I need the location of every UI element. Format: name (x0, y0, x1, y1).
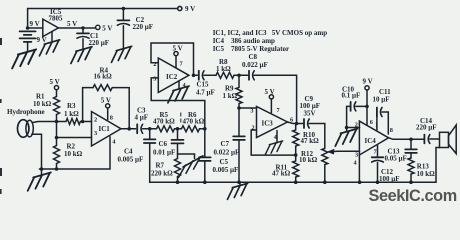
wire: R7 to bottom rail (177, 177, 179, 183)
svg-text:0.005 µF: 0.005 µF (213, 166, 239, 174)
wire: 5V to R1 top (56, 90, 58, 97)
svg-text:3: 3 (250, 107, 253, 114)
wire: IC2 pin 4 (178, 81, 180, 89)
resistor R7 220k vertical (175, 159, 181, 177)
svg-text:3: 3 (94, 130, 97, 137)
svg-text:C4: C4 (124, 148, 133, 156)
svg-text:SeekIC.com: SeekIC.com (369, 187, 457, 205)
svg-text:47 kΩ: 47 kΩ (272, 169, 291, 177)
svg-text:Hydrophone: Hydrophone (7, 108, 45, 116)
junction IC4 pin2 ground node (345, 126, 349, 130)
capacitor C14 220uF output (423, 135, 425, 144)
capacitor C10 0.1uF (350, 102, 352, 111)
svg-text:220 µF: 220 µF (133, 23, 154, 31)
svg-text:8: 8 (110, 114, 113, 121)
svg-text:IC5 7805 5-V Regulator: IC5 7805 5-V Regulator (213, 45, 289, 53)
svg-text:7805: 7805 (49, 15, 64, 23)
junction C10 at 9V wire (365, 105, 369, 109)
ground (R7 node, large slanted) (183, 156, 203, 167)
wire: IC1 output (121, 128, 136, 130)
svg-text:9 V: 9 V (37, 36, 47, 44)
junction IC1 pin3 node (55, 136, 59, 140)
junction R11 at bottom rail (294, 180, 298, 184)
ground (left rail) (41, 169, 43, 175)
junction IC1 output node (127, 127, 131, 131)
junction IC4 pin4 at bottom rail (358, 180, 362, 184)
svg-text:0.022 µF: 0.022 µF (214, 148, 240, 156)
svg-text:7: 7 (374, 148, 377, 155)
ground (IC5) (39, 40, 59, 56)
svg-text:3: 3 (355, 151, 358, 158)
resistor R8 1k horizontal (216, 72, 239, 78)
svg-text:35V: 35V (304, 109, 316, 117)
wire: speaker return to rail (436, 148, 440, 183)
terminal: 5V output (96, 25, 100, 29)
capacitor C4 0.005uF shunt (149, 129, 151, 139)
svg-text:1 kΩ: 1 kΩ (64, 110, 79, 118)
wire: IC4 pin 4 to rail (358, 155, 360, 182)
svg-text:4: 4 (354, 160, 358, 167)
svg-text:2: 2 (153, 61, 156, 68)
wire: ground stub at R7 top (178, 154, 195, 159)
svg-text:2: 2 (252, 124, 255, 131)
capacitor C13 0.05uF (410, 139, 412, 149)
svg-text:9 V: 9 V (30, 20, 40, 28)
junction R10-R11 divider node (294, 153, 298, 157)
wire: bias node to IC1 pin3 (57, 137, 92, 139)
svg-text:4.7 µF: 4.7 µF (196, 89, 215, 97)
junction C13-R13 tap at IC4 output (409, 138, 413, 142)
svg-text:100 µF: 100 µF (379, 175, 400, 183)
svg-text:5 V: 5 V (101, 97, 111, 105)
svg-text:3: 3 (153, 76, 156, 83)
svg-text:6: 6 (370, 119, 373, 126)
scan edge artifacts (0, 38, 2, 194)
separator mark (180, 113, 182, 123)
wire: battery to ground (27, 42, 29, 52)
svg-text:0.01 µF: 0.01 µF (153, 149, 175, 157)
capacitor C11 10uF gain (376, 108, 378, 117)
resistor R3 1k horizontal (57, 119, 92, 125)
junction C5 at bottom rail (203, 180, 207, 184)
capacitor C9 100uF 35V (303, 119, 305, 128)
terminal: 9V input (178, 6, 182, 10)
svg-text:9 V: 9 V (185, 5, 195, 13)
svg-text:10 µF: 10 µF (373, 95, 390, 103)
svg-text:470 kΩ: 470 kΩ (183, 118, 205, 126)
svg-text:C7: C7 (221, 140, 230, 148)
junction C4 tap on signal line (148, 127, 152, 131)
svg-text:IC4 386 audio amp: IC4 386 audio amp (213, 37, 275, 45)
svg-text:C15: C15 (197, 81, 210, 89)
svg-text:1 kΩ: 1 kΩ (216, 65, 231, 73)
svg-text:4: 4 (183, 82, 187, 89)
svg-text:5 V: 5 V (173, 45, 183, 53)
ground (IC4 pin2) (346, 128, 348, 132)
svg-text:R3: R3 (67, 102, 76, 110)
svg-text:4: 4 (112, 139, 116, 146)
svg-text:6: 6 (290, 116, 293, 123)
resistor R5 470k horizontal (157, 126, 178, 132)
wire: IC4 output (389, 138, 424, 140)
ground (C2) (111, 46, 131, 62)
wire: bottom ground rail (150, 181, 436, 183)
wire: IC4 pin2 node (347, 106, 360, 127)
svg-text:220 kΩ: 220 kΩ (151, 170, 173, 178)
pot wiper arrowhead (328, 149, 335, 154)
wire: IC5 ground pin (51, 32, 53, 43)
wire: left ground rail (39, 137, 110, 169)
wire: IC3 output (288, 122, 304, 124)
svg-text:0.1 µF: 0.1 µF (342, 92, 361, 100)
svg-text:7: 7 (180, 61, 183, 68)
svg-text:1 kΩ: 1 kΩ (223, 92, 238, 100)
svg-text:470 kΩ: 470 kΩ (153, 118, 175, 126)
junction R4 feedback at pin2 wire (81, 120, 85, 124)
svg-text:16 kΩ: 16 kΩ (94, 73, 113, 81)
svg-text:C6: C6 (159, 140, 168, 148)
svg-text:IC4: IC4 (365, 137, 377, 145)
wire: R2 to ground rail (56, 164, 58, 170)
svg-text:10 kΩ: 10 kΩ (299, 156, 318, 164)
wire: R9 node to IC3 pin3 (239, 107, 257, 109)
junction R7 at bottom rail (176, 180, 180, 184)
op-amp regulator IC5 7805 triangle (43, 19, 59, 36)
svg-text:5 V: 5 V (102, 24, 112, 32)
junction R9-C7 node at IC3 pin3 (237, 106, 241, 110)
op-amp IC4 386 triangle (359, 121, 388, 155)
svg-text:C8: C8 (249, 53, 258, 61)
wire: IC2 pin 7 supply (175, 56, 177, 68)
capacitor C12 100uF (372, 156, 384, 158)
battery B1 9V (20, 31, 36, 42)
junction hydrophone return at ground rail (40, 167, 44, 171)
svg-text:10 kΩ: 10 kΩ (33, 100, 52, 108)
svg-text:2: 2 (94, 116, 97, 123)
capacitor C3 4uF coupling (136, 124, 138, 133)
hydrophone microphone body (18, 120, 29, 138)
wire: 9V top rail from battery node to 9V terminal (28, 9, 178, 29)
svg-text:0.05 µF: 0.05 µF (385, 154, 407, 162)
terminal: 5V at R1 (54, 86, 58, 90)
op-amp IC2 triangle (158, 58, 189, 93)
resistor R6 470k horizontal (178, 126, 205, 132)
ground (IC2) (168, 86, 189, 103)
capacitor C15 4.7uF (194, 74, 198, 76)
wire: R1 bottom to bias node (56, 115, 58, 122)
junction C5 tap / IC2 pin3 node (203, 127, 207, 131)
svg-text:1: 1 (375, 122, 378, 129)
ground (battery) (12, 49, 36, 68)
wire: hydrophone top lead to bias node (32, 122, 56, 123)
svg-text:5 V: 5 V (265, 88, 275, 96)
wire: IC3 pin 2 to divider (251, 130, 296, 155)
resistor R10 47k vertical (293, 124, 299, 155)
svg-text:7: 7 (277, 107, 280, 114)
svg-text:C5: C5 (220, 158, 229, 166)
terminal: 5V at IC2 (174, 52, 178, 56)
wire: IC4 pin 6 supply (366, 90, 368, 125)
wire: battery node to IC5 input (28, 27, 43, 29)
svg-text:IC1: IC1 (99, 125, 111, 133)
ground (C7 rail) (239, 182, 241, 185)
resistor R9 1k vertical (236, 75, 242, 108)
junction bias node A (55, 120, 59, 124)
svg-text:10 kΩ: 10 kΩ (64, 150, 83, 158)
wire: hydrophone bottom lead down to ground rail (32, 134, 42, 169)
junction C6 tap between R5 and R6 (176, 127, 180, 131)
junction C1 at 5V line (81, 26, 84, 29)
terminal: 5V at IC1 (106, 104, 110, 108)
capacitor C2 220uF (122, 9, 124, 20)
capacitor C1 220uF (82, 28, 84, 33)
junction IC2 output node (192, 74, 196, 78)
op-amp IC3 triangle (257, 107, 288, 138)
svg-text:0.005 µF: 0.005 µF (118, 156, 144, 164)
wire: R4 feedback loop (83, 88, 130, 129)
svg-text:4 µF: 4 µF (135, 114, 149, 122)
wire: IC4 pin 7 bypass (377, 145, 379, 157)
svg-text:5 V: 5 V (67, 20, 77, 28)
wire: signal line C3 to R5 (150, 128, 157, 130)
op-amp IC1 triangle (92, 112, 122, 147)
resistor R13 10k vertical (408, 158, 414, 182)
speaker (440, 132, 449, 147)
junction C2 at 9V rail (122, 7, 126, 11)
svg-text:IC3: IC3 (262, 120, 274, 128)
resistor R4 16k horizontal (93, 85, 112, 91)
junction battery node (26, 26, 30, 30)
svg-text:220 µF: 220 µF (416, 124, 437, 132)
svg-text:IC1, IC2, and IC3 5V CMOS op: IC1, IC2, and IC3 5V CMOS op amp (213, 29, 328, 37)
wire: R12 wiper to IC4 pin3 (334, 150, 360, 152)
wire: IC5 output 5V line (58, 27, 95, 29)
svg-text:IC2: IC2 (166, 73, 178, 81)
junction R12 at bottom rail (323, 180, 327, 184)
junction C12 at bottom rail (376, 180, 380, 184)
junction R2 at ground rail (55, 167, 59, 171)
terminal: 9V at IC4 (365, 86, 369, 90)
wire: IC3 pin 7 supply (270, 99, 272, 113)
wire: filter node up to IC2 pin3 (151, 78, 205, 129)
resistor R1 10k vertical (54, 97, 60, 115)
potentiometer R12 10k vertical (322, 149, 328, 183)
junction R13 at bottom rail (409, 180, 413, 184)
wire: IC1 pin 8 supply (107, 108, 109, 120)
svg-text:9 V: 9 V (363, 78, 373, 86)
wire: IC2 feedback pin2 (151, 43, 194, 75)
junction IC3 output node (295, 122, 299, 126)
capacitor C8 0.022uF feedback (239, 74, 248, 76)
capacitor C5 0.005uF (204, 129, 206, 157)
svg-text:2: 2 (355, 121, 358, 128)
resistor R11 47k vertical (293, 155, 299, 182)
ground (C1) (71, 47, 92, 64)
capacitor C6 0.01uF (177, 129, 179, 140)
terminal: 5V at IC3 (269, 95, 273, 99)
svg-text:0.022 µF: 0.022 µF (242, 61, 268, 69)
ground (IC3) (265, 141, 282, 155)
wire: IC3 pin 4 (276, 131, 278, 143)
junction C7 at bottom rail (237, 180, 241, 184)
junction R8-R9-C8 node (237, 74, 241, 78)
capacitor C7 0.022uF (238, 108, 240, 136)
svg-text:47 kΩ: 47 kΩ (301, 137, 320, 145)
svg-text:10 kΩ: 10 kΩ (417, 170, 436, 178)
svg-text:220 µF: 220 µF (89, 39, 110, 47)
wire: bias bus R1-R2 (56, 122, 58, 146)
svg-text:8: 8 (390, 127, 393, 134)
svg-text:5 V: 5 V (50, 78, 60, 86)
resistor R2 10k vertical (54, 146, 60, 164)
svg-text:R7: R7 (156, 162, 165, 170)
